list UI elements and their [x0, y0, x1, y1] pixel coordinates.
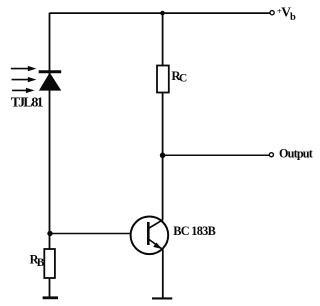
wire top rail [50, 12, 270, 14]
transistor Q1 circle [131, 217, 169, 255]
light arrow 3 [12, 88, 34, 93]
node junction top (collector branch) [160, 11, 165, 16]
photodiode D1 cathode bar [39, 70, 62, 73]
wire emitter to ground [162, 250, 164, 298]
svg-text:BC 183B: BC 183B [173, 224, 216, 238]
photodiode D1 triangle (anode) [39, 73, 61, 91]
terminal Output open circle [269, 153, 273, 157]
resistor RB body [44, 249, 55, 278]
wire RB to ground [49, 278, 51, 297]
transistor Q1 emitter arrow [153, 243, 162, 250]
svg-text:Output: Output [279, 147, 313, 161]
transistor Q1 emitter lead [148, 239, 162, 250]
transistor Q1 collector lead [148, 220, 163, 229]
svg-text:TJL 81: TJL 81 [11, 96, 44, 111]
ground (left, under RB) [43, 296, 58, 299]
wire base horizontal [50, 233, 130, 235]
light arrow 1 [11, 66, 37, 71]
transistor Q1 base bar [147, 222, 150, 245]
svg-text:RC: RC [171, 69, 187, 85]
light arrow 2 [12, 77, 37, 82]
resistor RC body [157, 66, 169, 93]
terminal +Vb open circle [270, 11, 274, 15]
wire left vertical (supply to base node) [49, 13, 51, 249]
wire output horizontal [163, 154, 269, 156]
wire collector branch upper (rail to RC) [162, 13, 164, 66]
wire RC to collector [162, 93, 164, 220]
node junction base (left) [47, 231, 52, 236]
ground (right, under emitter) [152, 297, 172, 299]
node junction output [160, 153, 166, 159]
